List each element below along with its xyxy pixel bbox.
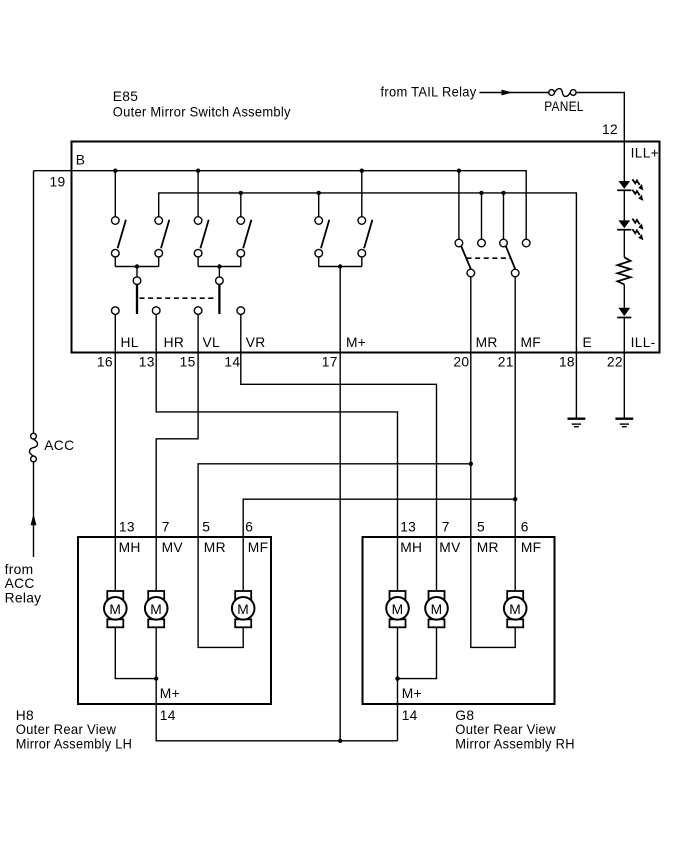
wire MR pin20 to G8 MR pin5: [471, 464, 515, 648]
svg-text:MV: MV: [162, 540, 184, 555]
pin 19 label: [50, 175, 66, 190]
svg-text:MF: MF: [521, 540, 542, 555]
svg-text:21: 21: [498, 355, 514, 370]
junction M+ bus pin 17: [338, 739, 342, 743]
svg-text:5: 5: [202, 520, 210, 535]
label G8 Outer Rear View Mirror Assembly RH: [455, 708, 575, 752]
wire pin 22 ILL- to ground: [623, 318, 625, 418]
terminal label MR: [476, 335, 498, 350]
svg-text:M+: M+: [160, 686, 180, 701]
wire pole junction M+: [319, 266, 362, 268]
switch HL: [112, 171, 126, 267]
svg-text:13: 13: [400, 520, 416, 535]
svg-text:HR: HR: [164, 335, 185, 350]
junction HL/HR: [135, 264, 139, 268]
svg-text:ILL-: ILL-: [631, 335, 656, 350]
wire HR pin13 to G8 MH pin13: [156, 314, 397, 591]
svg-text:Relay: Relay: [5, 591, 42, 606]
H8 terminal label MR: [204, 540, 226, 555]
pin B label: [76, 153, 86, 168]
pin 15 number: [180, 355, 196, 370]
H8 pin 5 number: [202, 520, 210, 535]
terminal label M+: [346, 335, 366, 350]
svg-text:MH: MH: [400, 540, 422, 555]
svg-text:from: from: [5, 562, 34, 577]
fuse PANEL: [549, 89, 576, 97]
fuse ACC: [29, 433, 37, 462]
wire G8 M+ pin 14: [397, 627, 399, 741]
G8 terminal label M+: [402, 686, 422, 701]
switch M+ right: [358, 171, 372, 267]
svg-text:VR: VR: [246, 335, 266, 350]
svg-text:19: 19: [50, 175, 66, 190]
wire: [623, 230, 625, 258]
H8 pin 14 number: [160, 708, 176, 723]
svg-text:22: 22: [607, 355, 623, 370]
pin 17 number: [322, 355, 338, 370]
junction B bus at MR group: [457, 169, 461, 173]
svg-text:18: 18: [559, 355, 575, 370]
H8 terminal label MV: [162, 540, 184, 555]
svg-text:MR: MR: [477, 540, 499, 555]
svg-text:MV: MV: [439, 540, 461, 555]
wire VL pin15 to H8 MV pin7: [156, 314, 198, 591]
motor M H8 MH: [104, 591, 127, 627]
wire G8 MV motor to M+: [398, 627, 437, 678]
svg-text:7: 7: [442, 520, 450, 535]
wire H8 M+ pin 14 to bus: [156, 627, 397, 741]
svg-text:M: M: [392, 602, 404, 617]
G8 pin 13 number: [400, 520, 416, 535]
motor M G8 MH: [386, 591, 409, 627]
svg-text:Outer Mirror Switch Assembly: Outer Mirror Switch Assembly: [113, 104, 291, 119]
junction B bus at VL: [196, 169, 200, 173]
diode: [617, 308, 631, 318]
terminal label HL: [121, 335, 139, 350]
LED illumination 2: [617, 219, 643, 241]
wire: [623, 284, 625, 307]
label H8 Outer Rear View Mirror Assembly LH: [16, 708, 133, 752]
switch blade MF: [506, 246, 519, 276]
connector box E85 Outer Mirror Switch Assembly: [72, 142, 660, 353]
svg-text:12: 12: [602, 122, 618, 137]
H8 pin 13 number: [119, 520, 135, 535]
mechanical link dashed MR/MF: [467, 257, 512, 259]
wire from ACC relay: [33, 462, 35, 557]
svg-text:14: 14: [402, 708, 418, 723]
svg-text:Mirror Assembly RH: Mirror Assembly RH: [455, 737, 575, 752]
terminal HR pin 13: [152, 307, 160, 315]
svg-text:M: M: [109, 602, 121, 617]
terminal label HR: [164, 335, 185, 350]
wire M+ to pin 17 and M+ bus: [339, 267, 341, 741]
junction M+: [338, 264, 342, 268]
pin 16 number: [97, 355, 113, 370]
terminal label MF: [521, 335, 542, 350]
mechanical link dashed: [140, 297, 217, 299]
junction MF branch: [513, 497, 517, 501]
G8 terminal label MR: [477, 540, 499, 555]
svg-text:Outer Rear View: Outer Rear View: [455, 722, 556, 737]
junction B bus at HL: [113, 169, 117, 173]
switch VL: [194, 171, 208, 267]
junction bus2 at VR: [239, 191, 243, 195]
wire MF pin21 branch to H8 MF pin6: [243, 277, 515, 591]
node from ACC Relay: [5, 562, 42, 606]
svg-text:M: M: [237, 602, 249, 617]
pin 21 number: [498, 355, 514, 370]
pin 20 number: [453, 355, 469, 370]
svg-text:7: 7: [162, 520, 170, 535]
label ACC: [44, 438, 74, 453]
motor M G8 retract: [504, 591, 527, 627]
switch HR: [155, 217, 169, 267]
G8 pin 6 number: [521, 520, 529, 535]
box H8 Outer Rear View Mirror Assembly LH: [78, 537, 271, 704]
svg-text:MR: MR: [476, 335, 498, 350]
G8 pin 5 number: [477, 520, 485, 535]
box G8 Outer Rear View Mirror Assembly RH: [363, 537, 555, 704]
svg-text:6: 6: [521, 520, 529, 535]
label PANEL: [544, 99, 584, 114]
svg-text:ILL+: ILL+: [631, 145, 659, 160]
junction MR branch: [469, 462, 473, 466]
terminal label ILL-: [631, 335, 656, 350]
arrow current direction TAIL: [502, 90, 513, 96]
svg-text:14: 14: [224, 355, 240, 370]
svg-text:MF: MF: [521, 335, 542, 350]
svg-text:B: B: [76, 153, 86, 168]
G8 pin 7 number: [442, 520, 450, 535]
wire pole junction VL/VR: [198, 266, 241, 268]
wire bus B from pin 19: [34, 171, 527, 240]
svg-text:HL: HL: [121, 335, 139, 350]
svg-text:16: 16: [97, 355, 113, 370]
svg-text:20: 20: [453, 355, 469, 370]
H8 terminal label M+: [160, 686, 180, 701]
junction VL/VR: [217, 264, 221, 268]
svg-text:Outer Rear View: Outer Rear View: [16, 722, 117, 737]
svg-text:M: M: [509, 602, 521, 617]
svg-text:14: 14: [160, 708, 176, 723]
terminal label E: [583, 335, 593, 350]
svg-text:6: 6: [245, 520, 253, 535]
svg-text:VL: VL: [203, 335, 221, 350]
svg-text:ACC: ACC: [44, 438, 74, 453]
switch M+ left: [315, 193, 329, 267]
pin 13 number: [139, 355, 155, 370]
svg-text:E: E: [583, 335, 593, 350]
svg-text:G8: G8: [455, 708, 474, 723]
terminal HL pin 16: [112, 307, 120, 315]
wire HL pin16 to H8 MH pin13: [114, 314, 116, 591]
ground ILL-: [615, 419, 633, 427]
wire pole junction HL/HR: [115, 266, 158, 268]
svg-text:Mirror Assembly LH: Mirror Assembly LH: [16, 737, 133, 752]
svg-text:13: 13: [119, 520, 135, 535]
pin 12 label: [602, 122, 618, 137]
svg-text:PANEL: PANEL: [544, 99, 584, 114]
terminal VL pin 15: [194, 307, 202, 315]
motor M H8 retract: [232, 591, 255, 627]
svg-text:H8: H8: [16, 708, 34, 723]
switch group MR/MF throw contacts: [455, 171, 530, 247]
wire H8 MH motor to M+: [115, 627, 156, 678]
arrow current direction ACC: [31, 514, 37, 526]
wire TAIL relay feed: [480, 92, 549, 94]
svg-text:from TAIL Relay: from TAIL Relay: [381, 85, 477, 100]
LED illumination 1: [617, 179, 643, 201]
wire: [623, 190, 625, 220]
terminal VR pin 14: [237, 307, 245, 315]
H8 terminal label MH: [119, 540, 141, 555]
pin 22 number: [607, 355, 623, 370]
terminal label VL: [203, 335, 221, 350]
svg-text:17: 17: [322, 355, 338, 370]
G8 pin 14 number: [402, 708, 418, 723]
G8 terminal label MF: [521, 540, 542, 555]
svg-text:M: M: [150, 602, 162, 617]
terminal label VR: [246, 335, 266, 350]
junction H8 M+: [154, 676, 158, 680]
H8 pin 6 number: [245, 520, 253, 535]
actuator knob VL/VR: [216, 267, 224, 315]
svg-text:E85: E85: [113, 89, 138, 104]
svg-text:13: 13: [139, 355, 155, 370]
svg-text:5: 5: [477, 520, 485, 535]
wire PANEL to pin 12 ILL+: [576, 93, 624, 182]
svg-text:MR: MR: [204, 540, 226, 555]
resistor: [618, 257, 631, 284]
svg-text:MF: MF: [248, 540, 269, 555]
label connector E85: [113, 89, 291, 119]
junction B bus at M+ right: [360, 169, 364, 173]
motor M H8 MV: [145, 591, 168, 627]
svg-text:ACC: ACC: [5, 576, 35, 591]
wire MF pin21 to G8 MF pin6: [514, 499, 516, 591]
switch blade MR: [461, 246, 474, 276]
svg-text:M+: M+: [402, 686, 422, 701]
junction G8 M+: [395, 676, 399, 680]
actuator knob HL/HR: [133, 267, 141, 315]
ground E: [568, 419, 586, 427]
junction bus2 at M+ left: [317, 191, 321, 195]
switch VR: [237, 193, 251, 267]
wire VR pin14 to G8 MV pin7: [241, 314, 437, 591]
H8 pin 7 number: [162, 520, 170, 535]
motor M G8 MV: [425, 591, 448, 627]
pin 14 number: [224, 355, 240, 370]
wire bus 2 to pin E: [159, 193, 577, 418]
node ILL+ label: [631, 145, 659, 160]
H8 terminal label MF: [248, 540, 269, 555]
svg-text:15: 15: [180, 355, 196, 370]
junction bus2 at MR group a: [479, 191, 483, 195]
svg-text:MH: MH: [119, 540, 141, 555]
node from TAIL Relay: [381, 85, 477, 100]
wire MR pin20 branch to H8 MR pin5: [198, 277, 471, 648]
G8 terminal label MV: [439, 540, 461, 555]
svg-text:M: M: [431, 602, 443, 617]
G8 terminal label MH: [400, 540, 422, 555]
junction bus2 at MR group b: [501, 191, 505, 195]
pin 18 number: [559, 355, 575, 370]
svg-text:M+: M+: [346, 335, 366, 350]
wire pin 19 to ACC fuse: [33, 171, 35, 434]
